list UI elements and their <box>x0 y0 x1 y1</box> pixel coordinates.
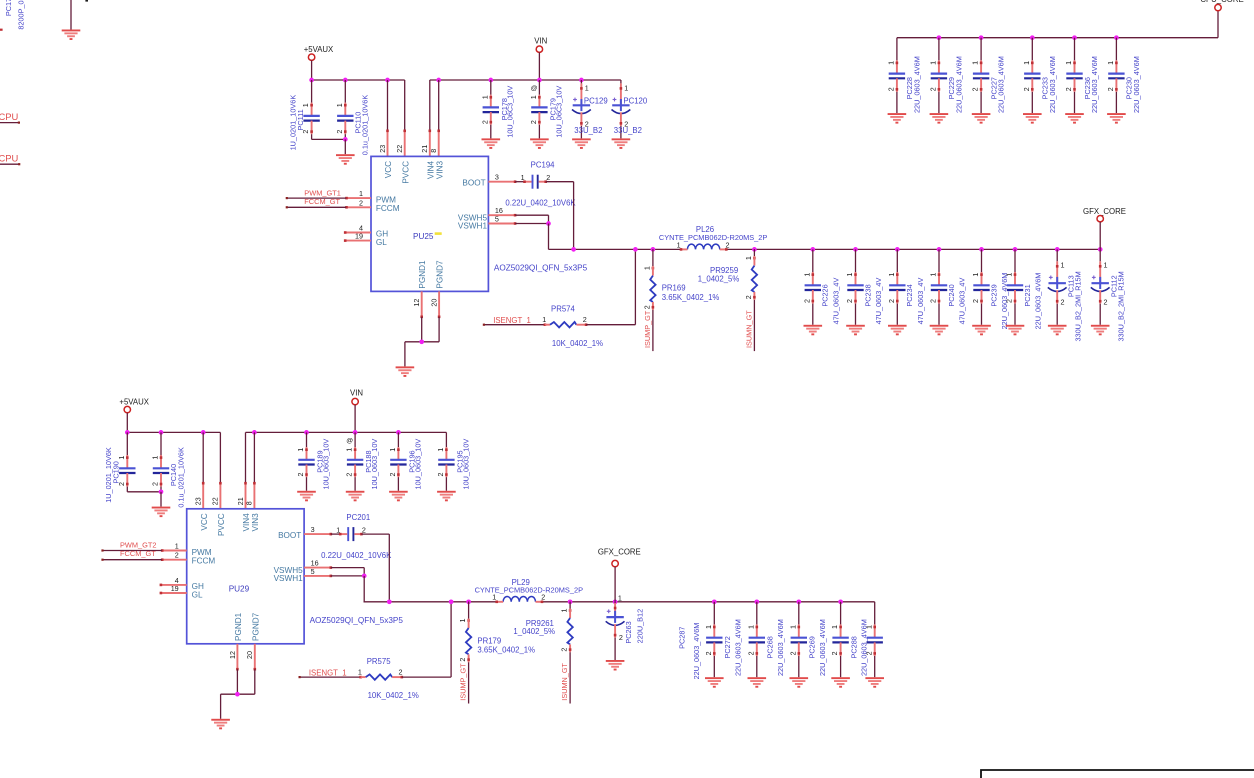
resistor PR169 <box>643 249 720 351</box>
svg-text:CPU_CORE: CPU_CORE <box>1200 0 1243 4</box>
svg-text:VIN: VIN <box>350 389 363 398</box>
ground <box>211 719 230 730</box>
svg-text:2: 2 <box>335 130 344 134</box>
svg-text:1: 1 <box>1022 61 1031 65</box>
capacitor PC240 <box>929 249 967 324</box>
svg-text:2: 2 <box>643 305 652 309</box>
svg-text:1: 1 <box>643 266 652 270</box>
svg-text:2: 2 <box>746 651 755 655</box>
svg-text:PC263: PC263 <box>624 621 633 643</box>
net label ISUMN_GT <box>744 310 753 348</box>
svg-text:3: 3 <box>495 173 499 182</box>
svg-text:1: 1 <box>529 95 538 99</box>
svg-text:PGND7: PGND7 <box>436 260 445 289</box>
power GFX_CORE (bottom) <box>598 547 641 602</box>
ground <box>1023 113 1042 124</box>
svg-text:FCCM_GT: FCCM_GT <box>304 197 340 206</box>
svg-text:0.22U_0402_10V6K: 0.22U_0402_10V6K <box>321 551 392 560</box>
svg-text:PC129: PC129 <box>584 97 608 106</box>
svg-text:3: 3 <box>311 525 315 534</box>
svg-text:2: 2 <box>399 668 403 677</box>
svg-text:2: 2 <box>887 299 896 303</box>
svg-text:2: 2 <box>624 119 628 128</box>
svg-text:1: 1 <box>151 456 160 460</box>
svg-text:PU25: PU25 <box>413 232 434 241</box>
wire +5VAUX rail <box>127 431 220 433</box>
wire CPU (upper) <box>0 122 20 124</box>
svg-text:1: 1 <box>436 448 445 452</box>
junction dots switch rail <box>571 247 1102 252</box>
svg-text:FCCM: FCCM <box>192 556 216 565</box>
capacitor PC287 (labels only) <box>677 623 701 680</box>
svg-text:CYNTE_PCMB062D-R20MS_2P: CYNTE_PCMB062D-R20MS_2P <box>475 586 584 595</box>
svg-text:PC272: PC272 <box>723 636 732 658</box>
svg-text:0.22U_0402_10V6K: 0.22U_0402_10V6K <box>505 198 576 207</box>
capacitor PC234 <box>887 249 925 324</box>
capacitor PC110 <box>335 80 370 155</box>
svg-text:3.65K_0402_1%: 3.65K_0402_1% <box>662 293 720 302</box>
wire PGND <box>405 317 439 367</box>
svg-text:PC194: PC194 <box>531 161 556 170</box>
wire VIN4 pin 21 <box>429 80 432 156</box>
svg-text:21: 21 <box>236 497 245 505</box>
svg-text:22: 22 <box>211 497 220 505</box>
ground <box>930 113 949 124</box>
svg-text:1: 1 <box>744 256 753 260</box>
svg-text:2: 2 <box>583 315 587 324</box>
svg-text:2: 2 <box>830 651 839 655</box>
wire VCC pin 23 <box>386 80 389 156</box>
svg-text:2: 2 <box>458 658 467 662</box>
ground <box>1065 113 1084 124</box>
svg-text:AOZ5029QI_QFN_5x3P5: AOZ5029QI_QFN_5x3P5 <box>494 263 588 272</box>
svg-text:PGND7: PGND7 <box>251 612 260 641</box>
svg-text:PC288: PC288 <box>850 636 859 658</box>
wire FCCM <box>101 559 161 561</box>
capacitor PC120 <box>612 80 648 138</box>
svg-text:VIN3: VIN3 <box>435 160 444 179</box>
svg-text:2: 2 <box>388 473 397 477</box>
ground <box>346 491 365 502</box>
power CPU_CORE <box>1200 0 1243 11</box>
svg-text:1: 1 <box>929 273 938 277</box>
ground <box>1091 325 1110 336</box>
svg-text:2: 2 <box>151 482 160 486</box>
junction dots VIN rail <box>252 430 401 435</box>
wire +5VAUX rail <box>312 79 405 81</box>
wire VSWH5 <box>331 568 364 576</box>
wire BOOT to cap <box>331 533 340 535</box>
svg-text:VCC: VCC <box>384 161 393 178</box>
svg-text:+5VAUX: +5VAUX <box>119 397 149 406</box>
svg-text:2: 2 <box>1106 87 1115 91</box>
capacitor PC188 <box>345 432 379 490</box>
svg-text:10K_0402_1%: 10K_0402_1% <box>552 339 603 348</box>
svg-text:22U_0603_4V6M: 22U_0603_4V6M <box>912 56 921 113</box>
net label CPU (lower) <box>0 152 19 163</box>
wire VSWH5 <box>515 215 548 223</box>
svg-text:1: 1 <box>704 625 713 629</box>
power +5VAUX <box>119 397 149 432</box>
title block border <box>981 770 1254 778</box>
svg-text:1: 1 <box>560 609 569 613</box>
svg-text:1_0402_5%: 1_0402_5% <box>513 627 555 636</box>
svg-text:1: 1 <box>358 668 362 677</box>
svg-text:22U_0603_4V6M: 22U_0603_4V6M <box>692 623 701 680</box>
svg-text:1: 1 <box>296 448 305 452</box>
svg-text:GFX_CORE: GFX_CORE <box>598 547 641 556</box>
svg-text:2: 2 <box>560 648 569 652</box>
svg-text:2: 2 <box>1064 87 1073 91</box>
svg-text:22U_0603_4V6M: 22U_0603_4V6M <box>776 619 785 676</box>
svg-text:PR574: PR574 <box>551 305 576 314</box>
junction dots switch rail (bottom) <box>387 599 843 604</box>
svg-text:2: 2 <box>929 87 938 91</box>
wire switch node rail (bottom) <box>364 601 875 603</box>
svg-text:PC201: PC201 <box>346 513 370 522</box>
svg-text:PC176: PC176 <box>4 0 13 16</box>
wire ISENGT to switch node <box>402 602 451 677</box>
capacitor PC189 <box>296 432 330 490</box>
svg-text:1: 1 <box>175 542 179 551</box>
svg-text:23: 23 <box>194 497 203 505</box>
svg-text:PC268: PC268 <box>766 636 775 658</box>
ground <box>1048 325 1067 336</box>
capacitor PC229 <box>929 38 964 113</box>
svg-text:1: 1 <box>458 619 467 623</box>
ground <box>705 677 724 688</box>
svg-text:1: 1 <box>830 625 839 629</box>
net label ISENGT_1 <box>309 668 347 677</box>
power VIN <box>534 36 547 80</box>
svg-text:CYNTE_PCMB062D-R20MS_2P: CYNTE_PCMB062D-R20MS_2P <box>659 233 768 242</box>
wire CPU_CORE rail <box>897 11 1218 38</box>
capacitor PC196 <box>388 432 422 490</box>
wire CPU (lower) <box>0 163 20 165</box>
svg-text:1: 1 <box>929 61 938 65</box>
svg-text:1: 1 <box>359 189 363 198</box>
capacitor PC233 <box>1022 38 1057 113</box>
wire VIN rail <box>246 431 447 433</box>
svg-text:330U_B2_2MI_R15M: 330U_B2_2MI_R15M <box>1073 271 1082 341</box>
svg-text:VIN4: VIN4 <box>426 160 435 179</box>
svg-text:2: 2 <box>788 651 797 655</box>
svg-text:1U_0201_10V6K: 1U_0201_10V6K <box>104 447 113 503</box>
ground <box>1107 113 1126 124</box>
svg-text:2: 2 <box>802 299 811 303</box>
svg-text:2: 2 <box>845 299 854 303</box>
capacitor PC268 <box>746 602 784 677</box>
svg-text:20: 20 <box>245 651 254 659</box>
svg-text:1: 1 <box>1064 61 1073 65</box>
power VIN <box>350 389 363 433</box>
svg-text:10U_0603_10V: 10U_0603_10V <box>461 439 470 490</box>
net label CPU (upper) <box>0 111 19 122</box>
svg-text:47U_0603_4V: 47U_0603_4V <box>874 278 883 325</box>
svg-text:PVCC: PVCC <box>401 161 410 184</box>
ground <box>297 491 316 502</box>
ground <box>530 138 549 149</box>
svg-text:PVCC: PVCC <box>217 513 226 536</box>
capacitor unnamed <box>864 602 883 677</box>
svg-text:1: 1 <box>1106 61 1115 65</box>
svg-text:PGND1: PGND1 <box>418 260 427 289</box>
svg-text:2: 2 <box>1022 87 1031 91</box>
svg-text:2: 2 <box>296 473 305 477</box>
wire VSWH1 <box>331 574 367 602</box>
wire ISENGT to switch node <box>586 249 635 324</box>
svg-text:2: 2 <box>1061 297 1065 306</box>
wire BOOT cap to switch node <box>361 534 389 602</box>
svg-text:2: 2 <box>436 473 445 477</box>
svg-text:1: 1 <box>335 103 344 107</box>
svg-text:BOOT: BOOT <box>462 178 485 187</box>
capacitor PC195 <box>436 432 470 490</box>
svg-text:22U_0603_4V6M: 22U_0603_4V6M <box>997 56 1006 113</box>
svg-text:220U_B12: 220U_B12 <box>636 609 645 644</box>
ground <box>152 507 171 518</box>
svg-text:ISENGT_1: ISENGT_1 <box>493 316 531 325</box>
IC PU29 buck converter <box>160 497 404 670</box>
svg-text:1: 1 <box>301 103 310 107</box>
capacitor PC226 <box>802 249 840 324</box>
svg-text:@: @ <box>531 85 538 92</box>
wire to ground (top-left) <box>70 0 72 30</box>
net label FCCM_GT <box>304 197 340 206</box>
svg-text:19: 19 <box>171 584 179 593</box>
ground <box>888 113 907 124</box>
svg-text:VSWH1: VSWH1 <box>274 574 304 583</box>
svg-text:PGND1: PGND1 <box>234 612 243 641</box>
svg-text:5: 5 <box>495 215 499 224</box>
svg-text:PR169: PR169 <box>662 284 686 293</box>
resistor PR575 <box>358 657 419 700</box>
ground <box>790 677 809 688</box>
svg-text:1: 1 <box>618 593 622 602</box>
svg-text:1: 1 <box>971 273 980 277</box>
ground <box>336 154 355 165</box>
resistor PR9259 <box>698 249 757 351</box>
svg-text:47U_0603_4V: 47U_0603_4V <box>958 278 967 325</box>
ground <box>612 138 631 149</box>
svg-text:1: 1 <box>480 95 489 99</box>
ground <box>748 677 767 688</box>
wire ISENGT <box>299 676 362 678</box>
svg-text:2: 2 <box>619 633 623 642</box>
svg-text:10U_06C3_10V: 10U_06C3_10V <box>554 86 563 138</box>
ground <box>572 138 591 149</box>
capacitor PC140 <box>151 432 186 507</box>
net label ISUMN_GT (bottom) <box>560 662 569 700</box>
svg-text:PR575: PR575 <box>367 657 392 666</box>
junction dots +5VAUX rail <box>309 78 390 83</box>
svg-text:12: 12 <box>412 299 421 307</box>
svg-text:10K_0402_1%: 10K_0402_1% <box>368 691 419 700</box>
wire PGND <box>221 669 255 719</box>
net label FCCM_GT <box>120 549 156 558</box>
svg-text:1: 1 <box>388 448 397 452</box>
ground <box>606 660 625 671</box>
junction dots CPU_CORE rail <box>937 35 1119 40</box>
svg-text:2: 2 <box>480 120 489 124</box>
svg-text:2: 2 <box>345 473 354 477</box>
ground <box>389 491 408 502</box>
svg-text:22: 22 <box>395 145 404 153</box>
svg-text:PC239: PC239 <box>989 284 998 306</box>
svg-text:10U_0603_10V: 10U_0603_10V <box>413 439 422 490</box>
svg-text:2: 2 <box>929 299 938 303</box>
capacitor PC239 <box>971 249 1009 329</box>
svg-text:1: 1 <box>845 273 854 277</box>
ground <box>437 491 456 502</box>
svg-text:2: 2 <box>546 173 550 182</box>
svg-text:ISENGT_1: ISENGT_1 <box>309 668 347 677</box>
svg-text:1: 1 <box>1061 261 1065 270</box>
svg-text:CPU: CPU <box>0 111 19 122</box>
ground <box>930 325 949 336</box>
wire VIN rail <box>430 79 621 81</box>
wire PWM <box>101 549 161 551</box>
svg-text:22U_0603_4V6M: 22U_0603_4V6M <box>733 619 742 676</box>
IC PU25 buck converter <box>344 145 588 318</box>
capacitor PC269 <box>788 602 826 677</box>
svg-text:0.1u_0201_10V6K: 0.1u_0201_10V6K <box>361 95 370 156</box>
ground <box>831 677 850 688</box>
svg-text:ISUMP_GT: ISUMP_GT <box>643 310 652 348</box>
capacitor PC231 <box>1005 249 1043 329</box>
svg-text:ISUMP_GT: ISUMP_GT <box>459 663 468 701</box>
capacitor PC176 (partial) <box>0 0 26 31</box>
svg-text:1: 1 <box>746 625 755 629</box>
svg-text:PC269: PC269 <box>808 636 817 658</box>
svg-text:3.65K_0402_1%: 3.65K_0402_1% <box>477 646 535 655</box>
capacitor PC272 <box>704 602 742 677</box>
resistor PR9261 <box>513 602 572 704</box>
capacitor PC111 <box>289 80 320 150</box>
capacitor PC194 <box>505 161 576 208</box>
resistor PR179 <box>458 602 535 704</box>
svg-text:2: 2 <box>864 651 873 655</box>
capacitor PC263 <box>606 593 645 660</box>
wire ISENGT <box>483 324 546 326</box>
svg-text:2: 2 <box>744 295 753 299</box>
ground <box>972 325 991 336</box>
junction dots +5VAUX rail <box>125 430 206 435</box>
wire PVCC pin 22 <box>219 432 222 508</box>
svg-text:10U_0603_10V: 10U_0603_10V <box>370 439 379 490</box>
wire VIN3 pin 8 <box>253 432 256 508</box>
svg-text:1: 1 <box>345 448 354 452</box>
svg-text:GL: GL <box>192 590 203 599</box>
svg-text:47U_0603_4V: 47U_0603_4V <box>831 278 840 325</box>
wire switch node rail <box>549 248 1101 250</box>
svg-text:22U_0603_4V6M: 22U_0603_4V6M <box>1132 56 1141 113</box>
svg-text:2: 2 <box>585 119 589 128</box>
capacitor PC228 <box>887 38 922 113</box>
svg-text:1: 1 <box>887 61 896 65</box>
power GFX_CORE (top) <box>1083 207 1126 250</box>
power +5VAUX <box>304 45 334 80</box>
wire PWM <box>286 197 347 199</box>
ground <box>482 138 501 149</box>
ground <box>396 366 415 377</box>
svg-text:2: 2 <box>1104 297 1108 306</box>
resistor PR574 <box>542 305 603 348</box>
svg-text:1: 1 <box>624 83 628 92</box>
capacitor PC113 <box>1048 249 1083 341</box>
svg-text:2: 2 <box>529 120 538 124</box>
svg-text:2: 2 <box>175 551 179 560</box>
svg-text:10U_06C3_10V: 10U_06C3_10V <box>506 86 515 138</box>
svg-text:1: 1 <box>802 273 811 277</box>
capacitor PC238 <box>845 249 883 324</box>
svg-text:2: 2 <box>704 651 713 655</box>
svg-text:22U_0603_4V6M: 22U_0603_4V6M <box>1090 56 1099 113</box>
ground <box>972 113 991 124</box>
net label ISENGT_1 <box>493 316 531 325</box>
wire FCCM <box>286 206 347 208</box>
net label PWM_GT2 <box>120 541 157 550</box>
svg-text:22U_0603_4V6M: 22U_0603_4V6M <box>954 56 963 113</box>
svg-text:8200P_04: 8200P_04 <box>17 0 26 30</box>
svg-text:PC240: PC240 <box>947 284 956 306</box>
capacitor PC112 <box>1091 249 1126 341</box>
svg-text:2: 2 <box>359 198 363 207</box>
svg-text:VIN3: VIN3 <box>251 513 260 532</box>
capacitor PC288 <box>830 602 868 677</box>
capacitor PC227 <box>971 38 1006 113</box>
wire VSWH1 <box>515 221 551 249</box>
svg-text:1: 1 <box>1005 273 1014 277</box>
svg-text:1U_0201_10V6K: 1U_0201_10V6K <box>289 95 298 151</box>
wire BOOT cap to switch node <box>546 182 574 250</box>
svg-text:1: 1 <box>336 526 340 535</box>
svg-text:FCCM: FCCM <box>376 204 400 213</box>
svg-text:8: 8 <box>245 501 254 505</box>
inductor PL29 <box>475 578 584 603</box>
svg-text:2: 2 <box>1005 299 1014 303</box>
svg-text:1_0402_5%: 1_0402_5% <box>698 274 740 283</box>
wire cap bottoms to ground <box>312 137 348 154</box>
svg-text:AOZ5029QI_QFN_5x3P5: AOZ5029QI_QFN_5x3P5 <box>310 616 404 625</box>
svg-text:PC234: PC234 <box>905 284 914 306</box>
svg-text:1: 1 <box>971 61 980 65</box>
net label PWM_GT1 <box>304 188 341 197</box>
svg-text:PC120: PC120 <box>623 97 648 106</box>
capacitor PC201 <box>321 513 392 560</box>
svg-text:1: 1 <box>864 625 873 629</box>
capacitor PC179 <box>529 80 563 138</box>
svg-text:VSWH1: VSWH1 <box>458 222 488 231</box>
wire cap bottoms to ground <box>127 489 163 506</box>
svg-text:1: 1 <box>585 83 589 92</box>
wire VIN3 pin 8 <box>437 80 440 156</box>
svg-text:23: 23 <box>378 145 387 153</box>
svg-text:ISUMN_GT: ISUMN_GT <box>744 310 753 348</box>
svg-text:2: 2 <box>362 526 366 535</box>
svg-text:1: 1 <box>1104 261 1108 270</box>
svg-text:19: 19 <box>355 232 363 241</box>
svg-text:1: 1 <box>542 315 546 324</box>
wire PVCC pin 22 <box>403 80 406 156</box>
inductor PL26 <box>659 225 768 251</box>
svg-text:0.1u_0201_10V6K: 0.1u_0201_10V6K <box>176 447 185 508</box>
svg-text:VIN4: VIN4 <box>242 513 251 532</box>
svg-text:22U_0603_4V6M: 22U_0603_4V6M <box>818 619 827 676</box>
svg-text:PC287: PC287 <box>677 627 686 649</box>
net label ISUMP_GT (bottom) <box>459 663 468 701</box>
capacitor PC236 <box>1064 38 1099 113</box>
